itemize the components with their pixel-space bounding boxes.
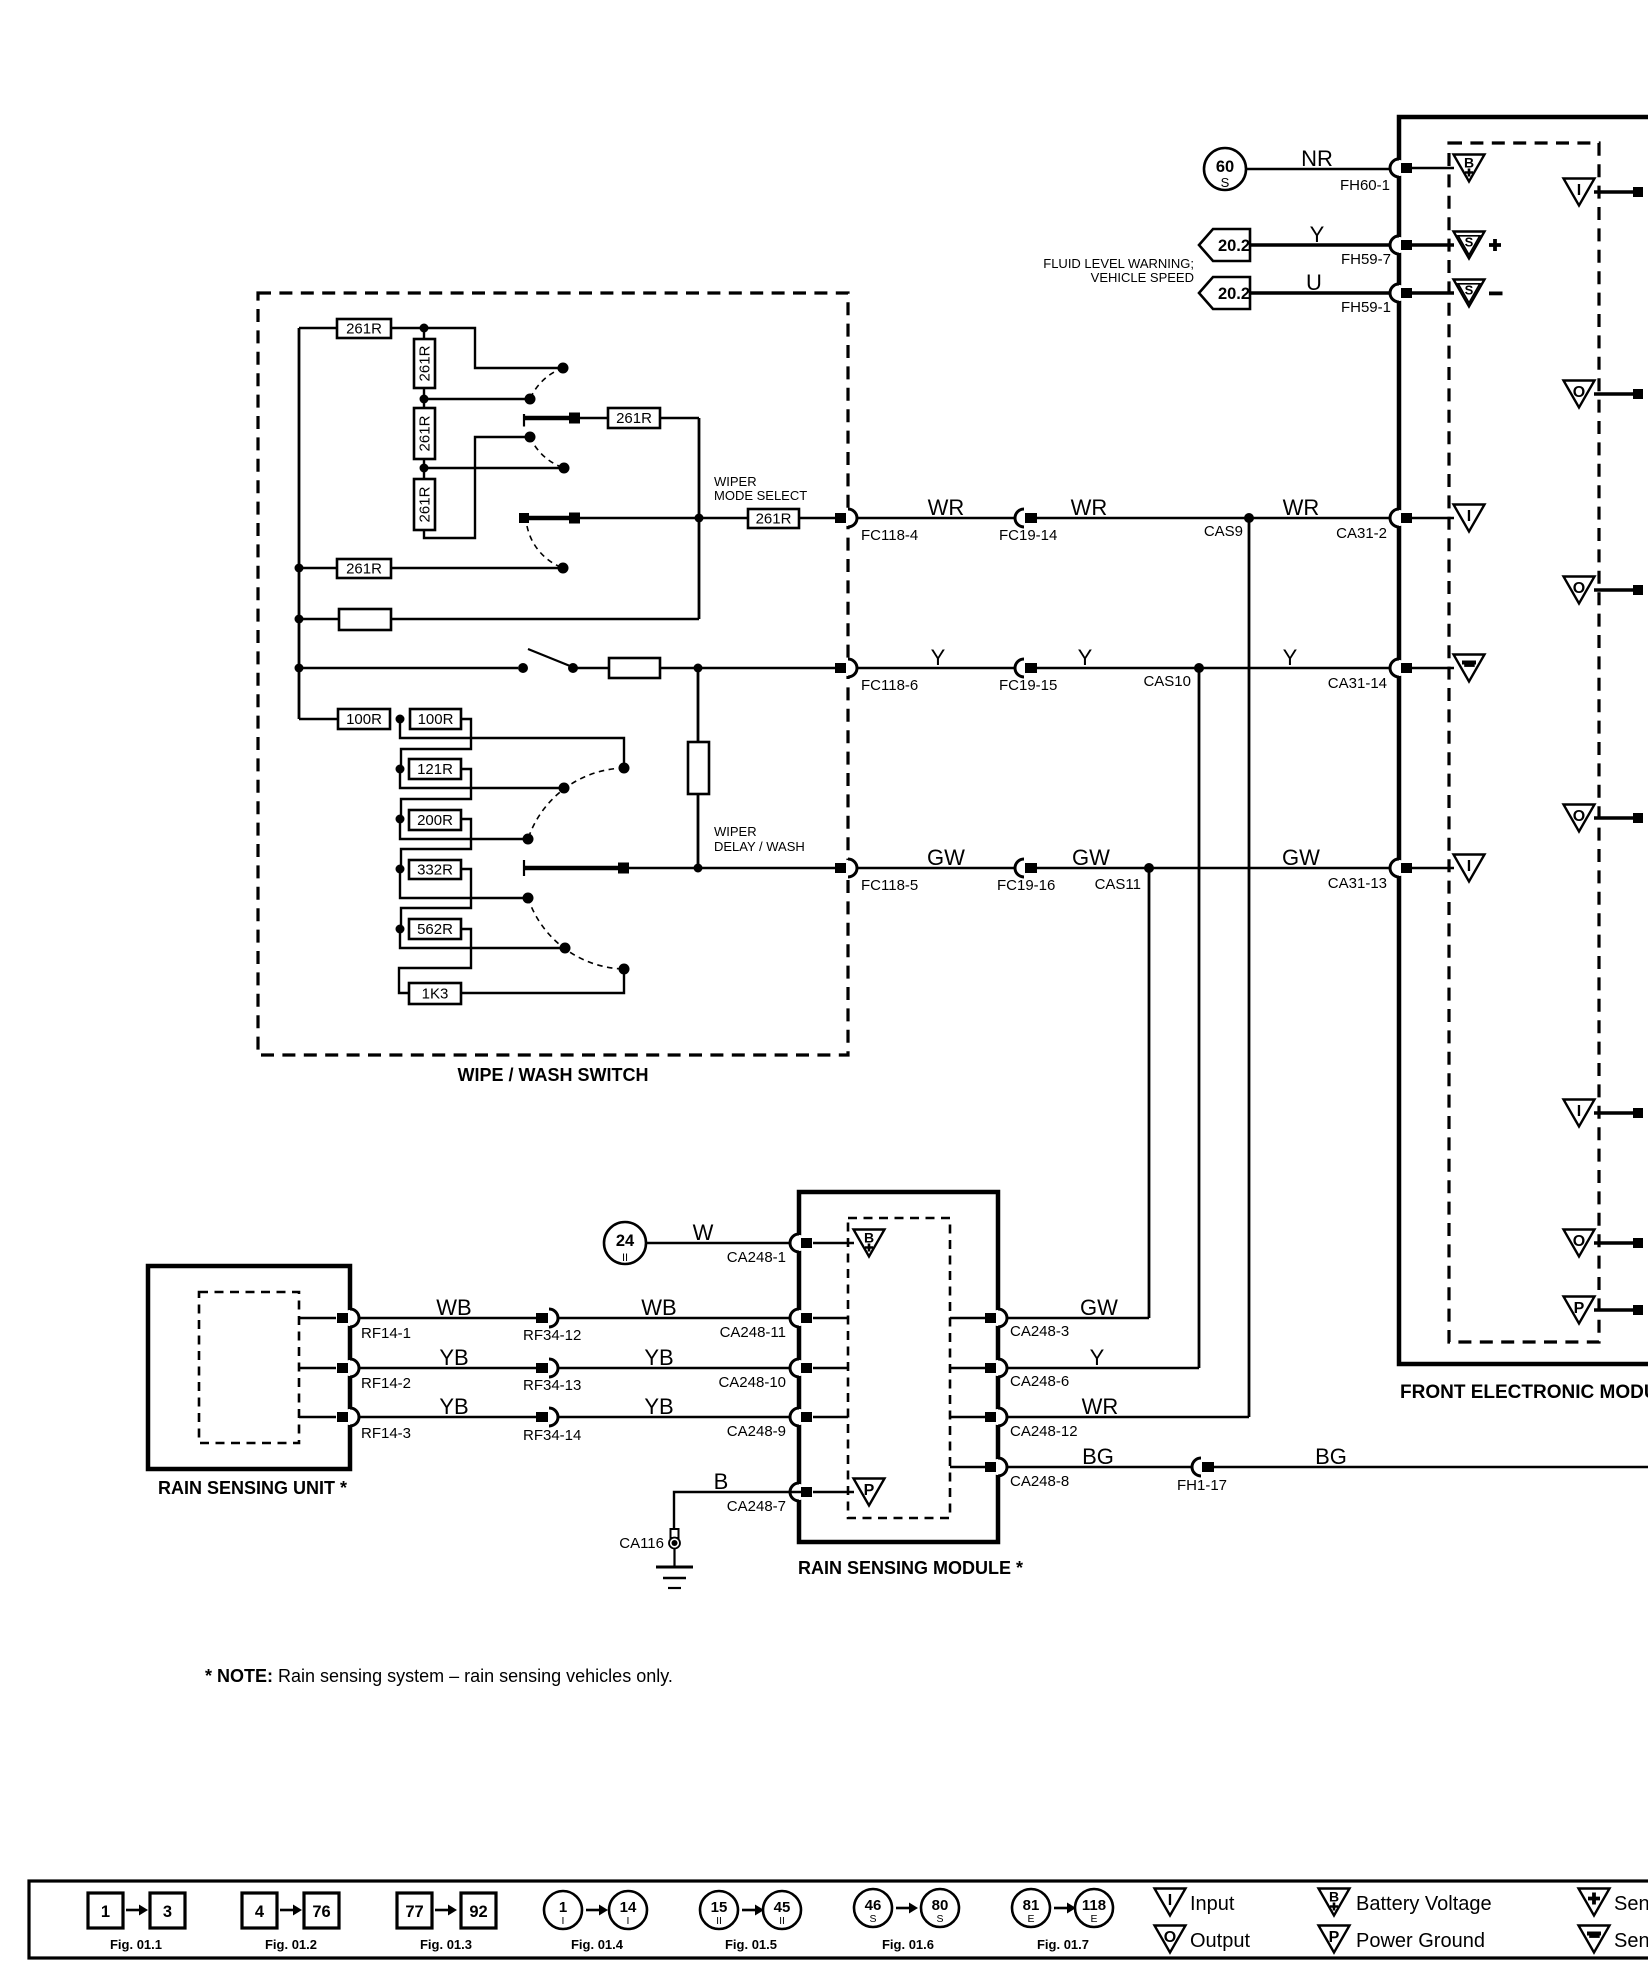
svg-text:45: 45	[774, 1899, 791, 1916]
svg-text:FC118-4: FC118-4	[861, 527, 918, 544]
svg-text:Y: Y	[1310, 222, 1325, 247]
off-page reference 20.2 (U)	[1199, 277, 1250, 309]
legend symbol sensor minus	[1579, 1926, 1610, 1953]
svg-text:Y: Y	[931, 645, 946, 670]
connector FC118-4	[835, 509, 857, 527]
pin symbol output (right 1)	[1564, 381, 1595, 408]
annotation WIPER MODE SELECT	[714, 474, 807, 503]
svg-text:I: I	[1467, 858, 1471, 875]
wire blade2 to R8	[580, 517, 748, 519]
legend circle 81 E	[1012, 1889, 1050, 1927]
wire bus to resistor R1	[299, 327, 337, 329]
legend symbol battery voltage	[1319, 1889, 1350, 1916]
legend circle 1 I	[544, 1891, 582, 1929]
node bus/R7	[295, 615, 304, 624]
svg-text:46: 46	[865, 1897, 882, 1914]
pin symbol power ground (CA248-7)	[854, 1479, 885, 1506]
fuse symbol 60 S	[1204, 148, 1246, 190]
resistor R2 261R	[414, 339, 435, 388]
wire WR harness row	[857, 517, 1399, 519]
svg-text:121R: 121R	[417, 761, 453, 778]
svg-text:BG: BG	[1082, 1444, 1114, 1469]
ladder contact 3	[523, 834, 534, 845]
svg-text:S: S	[1465, 235, 1474, 250]
svg-text:NR: NR	[1301, 146, 1333, 171]
wire CA248-8 inner	[950, 1466, 985, 1468]
wire bus to R6	[299, 567, 337, 569]
svg-text:RAIN SENSING UNIT *: RAIN SENSING UNIT *	[158, 1478, 347, 1498]
node junction delay bus / common row	[694, 864, 703, 873]
connector CA248-11	[790, 1309, 812, 1327]
front electronic module U-FEM outline	[1399, 117, 1648, 1364]
wire YB row 1	[359, 1367, 799, 1369]
legend circle 15 II	[700, 1891, 738, 1929]
wire Y module to riser	[1007, 1367, 1199, 1369]
connector FH1-17	[1192, 1458, 1214, 1476]
pin symbol sensor S (FH59-7)	[1454, 232, 1485, 259]
wire R7 to right bus	[391, 618, 699, 620]
svg-text:1K3: 1K3	[422, 986, 449, 1003]
wire inner to RF14-1	[299, 1317, 336, 1319]
wire R13 wrap to R14	[401, 769, 471, 819]
svg-text:24: 24	[616, 1232, 635, 1250]
ladder contact 1	[619, 763, 630, 774]
wire Y harness row	[857, 667, 1399, 669]
svg-text:76: 76	[312, 1903, 330, 1921]
connector RF14-3	[337, 1408, 359, 1426]
wire CA248-9 inner	[813, 1416, 848, 1418]
svg-text:WIPER: WIPER	[714, 824, 757, 839]
svg-text:O: O	[1573, 580, 1585, 597]
rain sensing module outline	[799, 1192, 998, 1542]
wire CA248-10 inner	[813, 1367, 848, 1369]
pin symbol input (right 4)	[1564, 1100, 1595, 1127]
svg-text:I: I	[1168, 1892, 1172, 1909]
wire stub from pin symbol output (right 2)	[1594, 588, 1634, 592]
svg-text:RAIN SENSING MODULE *: RAIN SENSING MODULE *	[798, 1558, 1023, 1578]
svg-text:FC118-5: FC118-5	[861, 877, 918, 894]
svg-text:CA248-7: CA248-7	[727, 1498, 786, 1515]
terminal square for pin symbol output (right 2)	[1633, 585, 1643, 595]
legend square 76	[304, 1893, 339, 1928]
switch contact 5	[558, 563, 569, 574]
svg-text:92: 92	[469, 1903, 487, 1921]
svg-text:100R: 100R	[346, 711, 382, 728]
pin symbol input (top right)	[1564, 179, 1595, 206]
connector RF34-13	[536, 1359, 558, 1377]
svg-text:GW: GW	[927, 845, 965, 870]
wiper blade rotary switch 2	[519, 513, 580, 524]
svg-text:O: O	[1573, 1233, 1585, 1250]
off-page reference 20.2 (Y)	[1199, 229, 1250, 261]
connector CA248-9	[790, 1408, 812, 1426]
svg-text:14: 14	[620, 1899, 637, 1916]
terminal square for pin symbol output (right 3)	[1633, 813, 1643, 823]
svg-text:GW: GW	[1282, 845, 1320, 870]
node bus/R6	[295, 564, 304, 573]
connector RF14-1	[337, 1309, 359, 1327]
wash switch contact left	[518, 663, 528, 673]
svg-text:1: 1	[559, 1899, 567, 1916]
wire stub from pin symbol power ground (right 6)	[1594, 1308, 1634, 1312]
dashed travel arc rotary switch 2	[527, 526, 563, 568]
node R14/R15	[396, 865, 405, 874]
svg-text:FC19-15: FC19-15	[999, 677, 1057, 694]
annotation FLUID LEVEL WARNING; VEHICLE SPEED	[1043, 256, 1194, 285]
wire node down to R4	[423, 468, 425, 479]
svg-text:W: W	[693, 1220, 714, 1245]
svg-text:B: B	[1329, 1889, 1339, 1905]
svg-text:* NOTE: Rain sensing system –: * NOTE: Rain sensing system – rain sensi…	[205, 1666, 673, 1686]
wire tap 1 to ladder contact 1	[400, 719, 624, 763]
svg-text:B: B	[864, 1230, 874, 1246]
wire left bus of wipe/wash switch	[298, 328, 301, 719]
svg-text:118: 118	[1082, 1897, 1106, 1914]
node junction R3/R4	[420, 464, 429, 473]
front electronic module inner dashed boundary	[1449, 143, 1599, 1342]
resistor R9 (unlabelled)	[609, 658, 660, 678]
svg-text:261R: 261R	[417, 345, 434, 381]
wire Y riser CAS10 to CA248-6	[1198, 668, 1201, 1368]
terminal square for pin symbol input (top right)	[1633, 187, 1643, 197]
wire CA248-6 inner	[950, 1367, 985, 1369]
svg-text:261R: 261R	[346, 321, 382, 338]
svg-text:FC19-16: FC19-16	[997, 877, 1055, 894]
node R12/R13	[396, 765, 405, 774]
rain sensing unit outline	[148, 1266, 350, 1469]
svg-text:FH1-17: FH1-17	[1177, 1477, 1227, 1494]
wire node down to R3	[423, 399, 425, 408]
wire R14 wrap to R15	[401, 819, 471, 869]
legend arrow 4	[586, 1905, 608, 1916]
svg-text:GW: GW	[1072, 845, 1110, 870]
svg-text:CA248-10: CA248-10	[718, 1374, 786, 1391]
wash switch contact right	[568, 663, 578, 673]
svg-text:WR: WR	[1283, 495, 1320, 520]
svg-text:P: P	[864, 1482, 875, 1499]
wiper blade rotary switch 1	[524, 413, 580, 427]
wire stub from pin symbol output (right 5)	[1594, 1241, 1634, 1245]
wire contact to R9	[573, 667, 609, 669]
terminal square for pin symbol output (right 1)	[1633, 389, 1643, 399]
wire R4 bottom wrap to contact 3	[424, 437, 525, 538]
svg-text:60: 60	[1216, 158, 1234, 176]
svg-text:YB: YB	[644, 1345, 673, 1370]
svg-text:WR: WR	[1071, 495, 1108, 520]
svg-text:CA31-14: CA31-14	[1328, 675, 1387, 692]
dashed travel arc upper rotary switch (bottom)	[530, 437, 564, 468]
legend square 92	[461, 1893, 496, 1928]
wire GW harness row	[857, 867, 1399, 869]
svg-text:3: 3	[163, 1903, 172, 1921]
pin symbol output (right 3)	[1564, 805, 1595, 832]
connector FH59-7	[1390, 236, 1412, 254]
wire stub from pin symbol input (top right)	[1594, 190, 1634, 194]
pin symbol power ground (right 6)	[1564, 1297, 1595, 1324]
wire R16 wrap to R17	[399, 929, 471, 993]
node junction R2/R3	[420, 395, 429, 404]
connector FH59-1	[1390, 284, 1412, 302]
wire inner to RF14-3	[299, 1416, 336, 1418]
wire CA248-7 to P triangle	[813, 1491, 854, 1493]
resistor R5 261R	[608, 408, 660, 428]
wire Y from 20.2 to FH59-7	[1250, 243, 1399, 247]
svg-text:I: I	[1577, 1103, 1581, 1120]
svg-text:YB: YB	[439, 1345, 468, 1370]
rain sensing unit inner dashed boundary	[199, 1292, 299, 1443]
svg-text:WR: WR	[928, 495, 965, 520]
legend square 3	[150, 1893, 185, 1928]
svg-text:WB: WB	[436, 1295, 471, 1320]
wire WB row	[359, 1317, 799, 1319]
switch contact 1	[558, 363, 569, 374]
svg-text:I: I	[1577, 182, 1581, 199]
wire CA248-11 inner	[813, 1317, 848, 1319]
pin symbol input (CA31-2)	[1454, 505, 1485, 532]
wire CA248-1 to B+ triangle	[813, 1242, 854, 1244]
svg-text:P: P	[1329, 1929, 1340, 1946]
svg-text:CA248-12: CA248-12	[1010, 1423, 1078, 1440]
svg-text:15: 15	[711, 1899, 728, 1916]
svg-text:RF34-12: RF34-12	[523, 1327, 581, 1344]
svg-text:FC19-14: FC19-14	[999, 527, 1057, 544]
svg-text:CA248-1: CA248-1	[727, 1249, 786, 1266]
svg-text:Battery Voltage: Battery Voltage	[1356, 1893, 1492, 1915]
svg-text:Fig. 01.5: Fig. 01.5	[725, 1937, 777, 1952]
annotation WIPER DELAY / WASH	[714, 824, 805, 854]
wire CA248-3 inner	[950, 1317, 985, 1319]
legend circle 45 II	[763, 1891, 801, 1929]
connector CA248-10	[790, 1359, 812, 1377]
svg-text:RF14-2: RF14-2	[361, 1375, 411, 1392]
ladder contact 2	[559, 783, 570, 794]
svg-text:S: S	[869, 1913, 876, 1925]
label + beside S triangle	[1489, 239, 1501, 251]
legend symbol output	[1155, 1926, 1186, 1953]
legend arrow 3	[435, 1905, 457, 1916]
svg-text:Y: Y	[1090, 1345, 1105, 1370]
wire tap 5 to ladder contact 5	[400, 929, 560, 948]
terminal square for pin symbol input (right 4)	[1633, 1108, 1643, 1118]
svg-text:I: I	[627, 1915, 630, 1927]
dashed travel arc delay rotary (upper)	[528, 768, 624, 839]
svg-text:81: 81	[1023, 1897, 1040, 1914]
connector CA248-12	[985, 1408, 1007, 1426]
svg-text:RF14-1: RF14-1	[361, 1325, 411, 1342]
svg-text:Fig. 01.2: Fig. 01.2	[265, 1937, 317, 1952]
fuse symbol 24 II	[604, 1222, 646, 1264]
resistor R16 562R	[409, 919, 461, 939]
connector CA31-14	[1390, 659, 1412, 677]
svg-text:P: P	[1574, 1300, 1585, 1317]
pin symbol output (right 5)	[1564, 1230, 1595, 1257]
label - beside S triangle	[1489, 292, 1503, 296]
connector FH60-1	[1390, 159, 1412, 177]
resistor R4 261R	[414, 479, 435, 530]
pin symbol battery voltage B+ (CA248-1)	[854, 1230, 885, 1257]
terminal square for pin symbol power ground (right 6)	[1633, 1305, 1643, 1315]
connector RF34-12	[536, 1309, 558, 1327]
svg-text:FH59-7: FH59-7	[1341, 251, 1391, 268]
wire right bus vertical	[698, 418, 701, 619]
svg-text:Fig. 01.4: Fig. 01.4	[571, 1937, 624, 1952]
legend arrow 6	[896, 1903, 918, 1914]
wire tap 3 to ladder contact 3	[400, 819, 523, 839]
svg-text:261R: 261R	[756, 511, 792, 528]
svg-text:CAS10: CAS10	[1143, 673, 1191, 690]
node CAS10	[1194, 663, 1204, 673]
svg-text:YB: YB	[439, 1394, 468, 1419]
svg-text:261R: 261R	[346, 561, 382, 578]
wiper blade delay/wash rotary switch	[524, 860, 629, 876]
resistor R13 121R	[409, 759, 461, 779]
wire BG module to edge	[1007, 1466, 1648, 1468]
svg-text:MODE SELECT: MODE SELECT	[714, 488, 807, 503]
svg-text:20.2: 20.2	[1218, 285, 1250, 303]
node bus/wash switch row	[295, 664, 304, 673]
svg-text:CA248-8: CA248-8	[1010, 1473, 1069, 1490]
svg-text:1: 1	[101, 1903, 110, 1921]
svg-text:FH59-1: FH59-1	[1341, 299, 1391, 316]
wire R1 to node	[391, 327, 424, 329]
wire node to contact 2	[424, 398, 525, 400]
svg-text:GW: GW	[1080, 1295, 1118, 1320]
node R13/R14	[396, 815, 405, 824]
legend circle 46 S	[854, 1889, 892, 1927]
connector FC19-16	[1015, 859, 1037, 877]
wire FH59-7 to sensor+ triangle	[1411, 243, 1454, 247]
svg-text:261R: 261R	[616, 410, 652, 427]
wipe/wash switch dashed enclosure	[258, 293, 848, 1055]
wire FH60-1 to battery triangle	[1411, 167, 1454, 169]
svg-text:200R: 200R	[417, 812, 453, 829]
svg-text:II: II	[622, 1252, 628, 1264]
svg-text:O: O	[1573, 808, 1585, 825]
pin symbol minus (CA31-14)	[1454, 655, 1485, 682]
wire WR riser CAS9 to CA248-12	[1248, 518, 1251, 1417]
legend symbol power ground	[1319, 1926, 1350, 1953]
svg-text:S: S	[1221, 175, 1230, 190]
terminal square for pin symbol output (right 5)	[1633, 1238, 1643, 1248]
svg-text:RF34-14: RF34-14	[523, 1427, 581, 1444]
svg-text:77: 77	[405, 1903, 423, 1921]
resistor R1 261R	[337, 319, 391, 338]
switch contact 3	[525, 432, 536, 443]
svg-text:O: O	[1164, 1929, 1176, 1946]
wire node to contact 1	[424, 328, 558, 368]
svg-text:CA248-9: CA248-9	[727, 1423, 786, 1440]
wire R8 to FC118-4	[799, 517, 836, 519]
wire R12 wrap to R13	[401, 719, 471, 769]
wire bus to R11	[299, 718, 338, 720]
svg-text:Output: Output	[1190, 1930, 1250, 1952]
resistor R15 332R	[409, 860, 461, 879]
wire stub from pin symbol output (right 1)	[1594, 392, 1634, 396]
connector CA248-6	[985, 1359, 1007, 1377]
resistor R14 200R	[409, 810, 461, 830]
connector CA248-3	[985, 1309, 1007, 1327]
node CAS11	[1144, 863, 1154, 873]
legend square 4	[242, 1893, 277, 1928]
ground connector CA116	[669, 1529, 680, 1549]
svg-text:DELAY / WASH: DELAY / WASH	[714, 839, 805, 854]
legend arrow 5	[742, 1905, 764, 1916]
svg-text:RF14-3: RF14-3	[361, 1425, 411, 1442]
svg-text:Fig. 01.1: Fig. 01.1	[110, 1937, 162, 1952]
svg-text:FH60-1: FH60-1	[1340, 177, 1390, 194]
svg-text:Y: Y	[1283, 645, 1298, 670]
node R11/R12	[396, 715, 405, 724]
svg-text:Power Ground: Power Ground	[1356, 1930, 1485, 1952]
connector CA31-2	[1390, 509, 1412, 527]
svg-text:E: E	[1027, 1913, 1034, 1925]
svg-text:4: 4	[255, 1903, 265, 1921]
connector FC19-15	[1015, 659, 1037, 677]
wire delay bus vertical	[697, 668, 700, 868]
pin symbol battery voltage B+ (FH60-1)	[1454, 155, 1485, 182]
connector CA248-7	[790, 1483, 812, 1501]
node junction R1/R2	[420, 324, 429, 333]
dashed travel arc upper rotary switch (top)	[530, 368, 563, 399]
svg-text:B: B	[714, 1469, 729, 1494]
wire CA31-13 to input triangle	[1411, 867, 1454, 869]
svg-text:WIPER: WIPER	[714, 474, 757, 489]
connector FC118-6	[835, 659, 857, 677]
legend arrow 7	[1054, 1903, 1076, 1914]
svg-text:562R: 562R	[417, 921, 453, 938]
wire inner to RF14-2	[299, 1367, 336, 1369]
wire GW module to riser	[1007, 1317, 1149, 1319]
svg-text:CA248-3: CA248-3	[1010, 1323, 1069, 1340]
wire node down to R2	[423, 328, 425, 339]
svg-text:I: I	[562, 1915, 565, 1927]
wire R6 to contact 5	[391, 567, 558, 569]
legend symbol sensor plus	[1579, 1889, 1610, 1916]
svg-text:II: II	[716, 1915, 722, 1927]
svg-text:Fig. 01.7: Fig. 01.7	[1037, 1937, 1089, 1952]
svg-text:CA248-11: CA248-11	[720, 1324, 786, 1341]
wire node to contact 4	[424, 467, 559, 469]
dashed travel arc delay rotary (lower)	[528, 898, 624, 969]
switch contact 4	[559, 463, 570, 474]
svg-text:CAS11: CAS11	[1095, 876, 1141, 893]
resistor R7 (unlabelled)	[339, 609, 391, 630]
ladder contact 5	[560, 943, 571, 954]
legend circle 80 S	[921, 1889, 959, 1927]
svg-text:CA248-6: CA248-6	[1010, 1373, 1069, 1390]
wire stub from pin symbol input (right 4)	[1594, 1111, 1634, 1115]
wire R9 to FC118-6	[660, 667, 836, 669]
legend square 1	[88, 1893, 123, 1928]
legend square 77	[397, 1893, 432, 1928]
wire stub from pin symbol output (right 3)	[1594, 816, 1634, 820]
svg-text:261R: 261R	[417, 486, 434, 522]
wire CA31-14 to minus triangle	[1411, 667, 1454, 669]
legend circle 118 E	[1075, 1889, 1113, 1927]
svg-text:CA31-13: CA31-13	[1328, 875, 1387, 892]
wash switch blade (open)	[528, 649, 575, 668]
wire YB row 2	[359, 1416, 799, 1418]
node CAS9	[1244, 513, 1254, 523]
svg-text:VEHICLE SPEED: VEHICLE SPEED	[1091, 270, 1194, 285]
svg-text:FC118-6: FC118-6	[861, 677, 918, 694]
pin symbol sensor S (FH59-1)	[1454, 280, 1485, 307]
wire tap 2 to ladder contact 2	[400, 769, 559, 788]
svg-text:S: S	[1465, 283, 1474, 298]
legend symbol input	[1155, 1889, 1186, 1916]
svg-text:U: U	[1306, 270, 1322, 295]
wire R2 to node	[423, 388, 425, 399]
